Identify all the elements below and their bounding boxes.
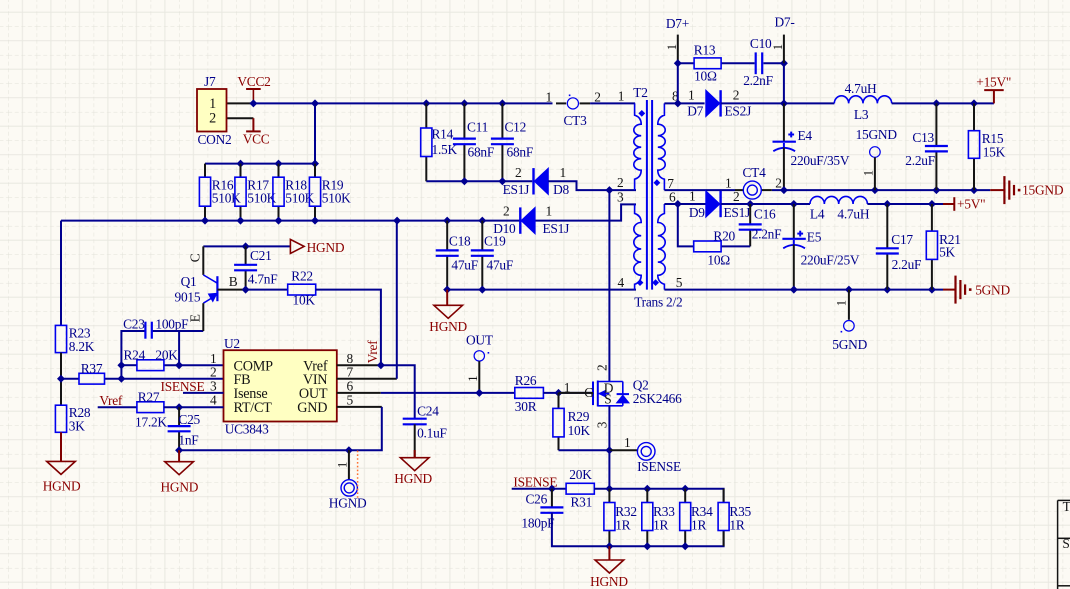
junction C26 top bbox=[548, 485, 556, 493]
capacitor C19 bbox=[471, 249, 494, 251]
resistor R15 bbox=[968, 131, 979, 159]
svg-text:R31: R31 bbox=[571, 494, 593, 509]
connector J7 CON2 bbox=[197, 89, 227, 132]
junction D7/E4 bbox=[780, 99, 788, 107]
wire VIN riser bbox=[396, 221, 398, 379]
T2 polarity dot w4 bbox=[652, 279, 659, 286]
svg-text:Vref: Vref bbox=[99, 393, 123, 408]
junction C19 top bbox=[478, 217, 486, 225]
svg-text:5GND: 5GND bbox=[832, 337, 867, 352]
ground HGND (C24) bbox=[414, 450, 416, 458]
svg-text:E5: E5 bbox=[807, 230, 822, 245]
U2 pin7 lead bbox=[337, 378, 397, 380]
svg-text:4.7nF: 4.7nF bbox=[248, 271, 278, 286]
svg-text:220uF/25V: 220uF/25V bbox=[801, 253, 860, 268]
wire R27 to pin4 bbox=[164, 406, 224, 408]
snubber riser right bbox=[783, 63, 785, 103]
junction R32 top bbox=[605, 485, 613, 493]
resistor R28 bbox=[55, 405, 66, 432]
svg-text:2: 2 bbox=[617, 175, 623, 190]
ground HGND (sense) bbox=[608, 546, 610, 560]
svg-text:15GND: 15GND bbox=[1022, 183, 1064, 198]
junction VCC2/J7 bbox=[249, 99, 257, 107]
junction Vref/pin8 bbox=[377, 361, 385, 369]
OUT tp tiny dot bbox=[488, 352, 490, 354]
transformer T2 core bbox=[646, 100, 648, 290]
resistor R22 bbox=[288, 284, 316, 295]
junction C23/COMP bbox=[175, 361, 183, 369]
svg-text:E: E bbox=[188, 314, 203, 322]
wire GND return bbox=[179, 407, 382, 450]
wire R29 to source node bbox=[559, 449, 610, 451]
svg-text:C16: C16 bbox=[754, 207, 776, 222]
junction pin6/R20 bbox=[674, 200, 682, 208]
diode D9 bbox=[706, 191, 720, 217]
svg-text:GND: GND bbox=[297, 400, 327, 416]
wire 15GND rail bbox=[772, 189, 990, 191]
svg-text:1: 1 bbox=[665, 44, 679, 50]
CT3 tiny dot bbox=[569, 95, 571, 97]
resistor R19 leads bbox=[314, 164, 316, 178]
svg-text:ISENSE: ISENSE bbox=[637, 459, 681, 474]
wire base to R22 bbox=[246, 289, 288, 291]
testpoint CT3 circle bbox=[567, 98, 578, 109]
junction C12 bottom bbox=[498, 177, 506, 185]
svg-text:6: 6 bbox=[347, 379, 354, 394]
junction R17 top bbox=[237, 160, 245, 168]
svg-text:180pF: 180pF bbox=[521, 515, 554, 530]
svg-text:VCC: VCC bbox=[243, 132, 270, 147]
ground HGND (C18/C19) bbox=[446, 290, 448, 306]
junction R18 top bbox=[275, 160, 283, 168]
svg-text:C21: C21 bbox=[250, 248, 272, 263]
transistor Q2 2SK2466 bbox=[592, 382, 594, 406]
transformer T2 winding 3-4 bbox=[634, 204, 641, 289]
capacitor C21 bbox=[234, 264, 257, 266]
junction R34 bottom bbox=[681, 542, 689, 550]
capacitor E4 bbox=[773, 141, 796, 143]
capacitor C26 leads bbox=[551, 489, 553, 508]
junction rail/C11 bbox=[460, 99, 468, 107]
junction E5 top bbox=[790, 200, 798, 208]
capacitor C17 leads bbox=[886, 204, 888, 248]
svg-text:2: 2 bbox=[733, 88, 739, 103]
svg-text:5: 5 bbox=[676, 275, 683, 290]
svg-text:R13: R13 bbox=[694, 42, 716, 57]
junction C11 bottom bbox=[460, 177, 468, 185]
junction R19 bottom bbox=[311, 217, 319, 225]
svg-text:R14: R14 bbox=[432, 127, 454, 142]
svg-text:CT3: CT3 bbox=[564, 113, 588, 128]
svg-text:1R: 1R bbox=[653, 518, 668, 533]
junction R21 bottom bbox=[928, 286, 936, 294]
resistor R32 leads bbox=[608, 489, 610, 503]
junction R23/R37 bbox=[57, 375, 65, 383]
svg-text:2: 2 bbox=[595, 365, 610, 371]
junction OUT tp bbox=[475, 389, 483, 397]
svg-text:15GND: 15GND bbox=[856, 127, 898, 142]
junction C13 top bbox=[932, 99, 940, 107]
testpoint 5GND bbox=[844, 321, 855, 332]
transistor Q1 9015 bbox=[216, 276, 218, 301]
wire source down bbox=[608, 406, 610, 450]
svg-text:1: 1 bbox=[689, 188, 695, 203]
resistor R34 bbox=[680, 503, 691, 531]
svg-text:1nF: 1nF bbox=[178, 432, 198, 447]
junction R32 bottom bbox=[605, 542, 613, 550]
junction D8/drain bbox=[605, 186, 613, 194]
svg-text:R24: R24 bbox=[124, 348, 146, 363]
testpoint OUT bbox=[474, 351, 484, 361]
svg-text:C19: C19 bbox=[484, 234, 506, 249]
wire VCC2-startup rail bbox=[61, 204, 636, 220]
svg-text:2SK2466: 2SK2466 bbox=[633, 391, 682, 406]
svg-text:J7: J7 bbox=[204, 74, 216, 89]
wire VCC2 rail bbox=[253, 102, 552, 104]
wire snubber row bbox=[678, 62, 694, 64]
svg-text:HGND: HGND bbox=[329, 496, 367, 511]
capacitor C10 bbox=[755, 52, 757, 74]
wire R20 branch bbox=[678, 204, 694, 246]
junction R34 top bbox=[681, 485, 689, 493]
resistor R31 bbox=[566, 483, 594, 494]
svg-text:1: 1 bbox=[335, 462, 349, 468]
svg-text:5: 5 bbox=[347, 393, 354, 408]
svg-text:15K: 15K bbox=[983, 144, 1006, 159]
junction 15GND tp bbox=[871, 186, 879, 194]
svg-text:10Ω: 10Ω bbox=[694, 69, 717, 84]
junction gate/R29 bbox=[555, 389, 563, 397]
capacitor E5 lead bottom bbox=[793, 240, 795, 245]
T2 polarity dot w1 bbox=[638, 110, 645, 117]
junction D9/C16 bbox=[746, 200, 754, 208]
svg-text:5K: 5K bbox=[939, 245, 955, 260]
wire D8 to T2 pin2 bbox=[548, 181, 636, 190]
wire sense rail bbox=[594, 489, 723, 503]
svg-text:D7: D7 bbox=[687, 103, 703, 118]
power port VCC bbox=[252, 118, 254, 131]
svg-text:VCC2: VCC2 bbox=[237, 74, 270, 89]
svg-text:S: S bbox=[1062, 536, 1069, 551]
svg-text:L4: L4 bbox=[810, 207, 825, 222]
resistor R37 bbox=[79, 373, 105, 384]
svg-text:17.2K: 17.2K bbox=[135, 414, 167, 429]
svg-text:1R: 1R bbox=[691, 518, 706, 533]
svg-text:7: 7 bbox=[347, 364, 354, 379]
svg-text:1: 1 bbox=[861, 170, 875, 176]
testpoint OUT lead bbox=[478, 361, 480, 393]
wire T2 pin8 to D7 bbox=[664, 102, 704, 104]
svg-text:2: 2 bbox=[210, 364, 216, 379]
wire 5GND rail bbox=[664, 289, 943, 291]
svg-text:R26: R26 bbox=[515, 373, 537, 388]
svg-text:R35: R35 bbox=[729, 504, 751, 519]
svg-text:D9: D9 bbox=[689, 205, 705, 220]
svg-text:2: 2 bbox=[733, 189, 739, 204]
capacitor C13 leads bbox=[935, 103, 937, 145]
capacitor C24 lead bottom bbox=[414, 424, 416, 457]
wire drain riser bbox=[608, 190, 610, 381]
svg-text:3: 3 bbox=[210, 379, 217, 394]
svg-text:E4: E4 bbox=[798, 128, 813, 143]
svg-text:1: 1 bbox=[618, 88, 624, 103]
svg-text:2: 2 bbox=[503, 203, 509, 218]
junction source/ISENSE bbox=[605, 446, 613, 454]
capacitor C25 bbox=[168, 425, 191, 427]
svg-text:8.2K: 8.2K bbox=[69, 339, 95, 354]
5GND tp tiny dot bbox=[841, 331, 843, 333]
svg-text:220uF/35V: 220uF/35V bbox=[791, 153, 850, 168]
transformer T2 winding 6-5 bbox=[658, 204, 665, 290]
svg-text:1: 1 bbox=[771, 44, 785, 50]
ground 5GND bbox=[943, 289, 956, 291]
junction R15 bottom bbox=[970, 186, 978, 194]
svg-text:2.2uF: 2.2uF bbox=[905, 153, 935, 168]
capacitor C18 leads bbox=[446, 221, 448, 251]
svg-text:1: 1 bbox=[725, 175, 731, 190]
testpin D7- bbox=[783, 35, 785, 64]
junction C18 bottom bbox=[443, 286, 451, 294]
svg-text:4.7uH: 4.7uH bbox=[837, 207, 869, 222]
wire L4 to +5V bbox=[867, 203, 943, 205]
snubber riser left bbox=[677, 63, 679, 103]
U2 pin6 lead (OUT) bbox=[337, 392, 381, 394]
resistor R18 bbox=[273, 177, 284, 206]
inductor L4 bbox=[810, 196, 867, 204]
svg-text:ES1J: ES1J bbox=[724, 205, 751, 220]
junction R17 bottom bbox=[237, 217, 245, 225]
svg-text:4.7uH: 4.7uH bbox=[845, 81, 877, 96]
svg-text:R29: R29 bbox=[568, 409, 590, 424]
resistor R16 leads bbox=[204, 164, 206, 178]
capacitor E4 lead bottom bbox=[783, 143, 785, 148]
junction Q1 base/C21/R22 bbox=[242, 286, 250, 294]
junction rail/R14 bbox=[422, 99, 430, 107]
wire FB row bbox=[121, 378, 223, 380]
svg-text:9015: 9015 bbox=[175, 289, 201, 304]
U2 pin3 lead (Isense) bbox=[183, 392, 224, 394]
wire D9 cathode to L4 bbox=[721, 203, 810, 205]
svg-text:4: 4 bbox=[617, 275, 624, 290]
svg-text:R33: R33 bbox=[653, 504, 675, 519]
svg-text:1R: 1R bbox=[615, 518, 630, 533]
resistor R29 bbox=[553, 408, 564, 437]
wire R22 to Vref bbox=[316, 290, 381, 366]
junction R24 left bbox=[117, 361, 125, 369]
capacitor E5 plus bbox=[797, 233, 803, 235]
capacitor C12 leads bbox=[501, 103, 503, 138]
svg-text:B: B bbox=[229, 274, 238, 289]
svg-text:ES1J: ES1J bbox=[503, 182, 530, 197]
svg-text:2: 2 bbox=[775, 175, 781, 190]
svg-text:T: T bbox=[1063, 499, 1070, 514]
svg-text:30R: 30R bbox=[515, 399, 537, 414]
wire CT3 to T2 pin1 bbox=[590, 102, 635, 104]
testpoint 5GND lead bbox=[848, 290, 850, 320]
wire T2 pin6 to D9 bbox=[664, 203, 705, 205]
svg-text:1R: 1R bbox=[729, 518, 744, 533]
svg-text:1: 1 bbox=[209, 96, 216, 112]
resistor R35 leads bbox=[723, 489, 725, 503]
ground HGND arrow (Q1 collector) bbox=[290, 239, 304, 253]
junction C17 bottom bbox=[883, 286, 891, 294]
resistor R24 bbox=[137, 360, 164, 371]
svg-text:C11: C11 bbox=[467, 119, 488, 134]
svg-text:2.2uF: 2.2uF bbox=[892, 257, 922, 272]
svg-text:C24: C24 bbox=[417, 403, 439, 418]
svg-text:C26: C26 bbox=[526, 491, 548, 506]
diode D7 bbox=[706, 90, 720, 116]
svg-text:R20: R20 bbox=[713, 228, 735, 243]
resistor R17 leads bbox=[240, 164, 242, 178]
junction C19 bottom bbox=[478, 286, 486, 294]
svg-text:HGND: HGND bbox=[161, 480, 199, 495]
U2 pin8 lead bbox=[337, 364, 381, 366]
svg-text:L3: L3 bbox=[854, 107, 869, 122]
svg-text:1: 1 bbox=[688, 88, 694, 103]
wire D7 cathode to L3 bbox=[721, 102, 835, 104]
svg-text:510K: 510K bbox=[322, 191, 351, 206]
junction C25 bottom bbox=[175, 446, 183, 454]
transformer T2 winding 8-7 bbox=[658, 103, 665, 190]
svg-text:D7+: D7+ bbox=[666, 16, 689, 31]
junction R33 bottom bbox=[643, 542, 651, 550]
capacitor C21 leads bbox=[245, 246, 247, 264]
svg-text:CT4: CT4 bbox=[743, 165, 767, 180]
capacitor C16 leads bbox=[749, 204, 751, 224]
wire gate lead bbox=[559, 392, 594, 394]
wire T2 pin7 to CT4 bbox=[664, 189, 735, 191]
wire L3 to +15V bbox=[892, 102, 994, 104]
capacitor C11 leads bbox=[463, 103, 465, 138]
junction HGND tp bbox=[345, 446, 353, 454]
wire HGND rail to T2 pin4 bbox=[447, 289, 636, 291]
svg-text:1: 1 bbox=[834, 300, 848, 306]
wire C26 to bottom rail bbox=[552, 513, 724, 546]
svg-text:+5V": +5V" bbox=[957, 196, 985, 211]
svg-text:3K: 3K bbox=[69, 419, 85, 434]
svg-text:RT/CT: RT/CT bbox=[234, 400, 273, 416]
svg-text:47uF: 47uF bbox=[487, 257, 514, 272]
wire D8 anode rail bbox=[426, 180, 532, 182]
testpoint CT4 bbox=[743, 181, 761, 199]
transformer T2 winding 1-2 bbox=[634, 103, 641, 190]
testpoint ISENSE lead bbox=[609, 449, 637, 451]
wire R19 drop bbox=[314, 103, 316, 163]
svg-text:HGND: HGND bbox=[43, 479, 81, 494]
capacitor E5 lead top bbox=[793, 204, 795, 238]
svg-text:Trans 2/2: Trans 2/2 bbox=[634, 295, 682, 310]
svg-text:HGND: HGND bbox=[590, 574, 628, 589]
svg-text:2: 2 bbox=[515, 165, 521, 180]
testpoint ISENSE bbox=[637, 443, 655, 461]
resistor R34 leads bbox=[684, 489, 686, 503]
svg-text:C23: C23 bbox=[123, 317, 145, 332]
resistor R23 bbox=[55, 325, 66, 352]
resistor R32 bbox=[604, 503, 615, 531]
wire R16-R19 top rail bbox=[205, 163, 315, 165]
svg-text:510K: 510K bbox=[285, 191, 314, 206]
svg-text:1: 1 bbox=[560, 165, 566, 180]
testpin D7+ bbox=[677, 35, 679, 64]
junction R18 bottom bbox=[275, 217, 283, 225]
svg-text:20K: 20K bbox=[569, 467, 592, 482]
svg-text:5GND: 5GND bbox=[975, 283, 1010, 298]
svg-text:CON2: CON2 bbox=[198, 132, 232, 147]
svg-text:68nF: 68nF bbox=[507, 144, 534, 159]
wire Q1 collector row bbox=[203, 245, 290, 247]
junction R33 top bbox=[643, 485, 651, 493]
testpoint HGND lead bbox=[348, 450, 350, 479]
capacitor C26 bbox=[540, 506, 563, 508]
svg-text:6: 6 bbox=[669, 190, 676, 205]
svg-text:3: 3 bbox=[617, 190, 624, 205]
svg-text:0.1uF: 0.1uF bbox=[417, 426, 447, 441]
svg-text:Q1: Q1 bbox=[181, 274, 197, 289]
resistor R27 bbox=[137, 402, 164, 413]
resistor R33 bbox=[642, 503, 653, 531]
wire R23 to R28 bbox=[60, 353, 62, 406]
capacitor E4 plus bbox=[788, 134, 794, 136]
wire source to sense rail bbox=[608, 450, 610, 489]
capacitor E5 bbox=[782, 238, 805, 240]
svg-text:G: G bbox=[584, 385, 594, 400]
svg-text:R27: R27 bbox=[138, 390, 160, 405]
svg-text:ES1J: ES1J bbox=[543, 221, 570, 236]
svg-text:2.2nF: 2.2nF bbox=[743, 73, 773, 88]
svg-text:20K: 20K bbox=[155, 348, 178, 363]
testpoint 15GND bbox=[870, 147, 881, 158]
power port +15V" bbox=[993, 90, 995, 103]
capacitor C17 bbox=[876, 247, 899, 249]
svg-text:1: 1 bbox=[546, 203, 552, 218]
testpoint HGND bbox=[341, 480, 357, 496]
svg-text:D7-: D7- bbox=[775, 15, 795, 30]
capacitor C13 bbox=[925, 145, 948, 147]
svg-text:R22: R22 bbox=[291, 269, 313, 284]
ground 15GND bbox=[990, 189, 1004, 191]
svg-text:U2: U2 bbox=[224, 336, 240, 351]
capacitor C23 bbox=[144, 322, 146, 339]
svg-text:100pF: 100pF bbox=[155, 317, 188, 332]
junction C17 top bbox=[883, 200, 891, 208]
inductor L3 bbox=[834, 96, 891, 104]
junction C21 top bbox=[242, 242, 250, 250]
svg-text:1: 1 bbox=[624, 435, 630, 450]
svg-text:47uF: 47uF bbox=[451, 257, 478, 272]
transistor Q1 collector lead bbox=[202, 246, 204, 275]
capacitor C12 bbox=[491, 138, 514, 140]
capacitor C11 bbox=[453, 138, 476, 140]
svg-text:1: 1 bbox=[545, 90, 551, 105]
capacitor C16 bbox=[739, 223, 762, 225]
wire COMP row bbox=[121, 364, 136, 366]
resistor R35 bbox=[718, 503, 729, 531]
wire R26 to gate bbox=[543, 392, 592, 394]
svg-text:68nF: 68nF bbox=[468, 144, 495, 159]
resistor R14 bbox=[421, 128, 432, 157]
junction R21 top bbox=[928, 200, 936, 208]
capacitor C23 wiring bbox=[121, 331, 145, 365]
svg-text:3: 3 bbox=[595, 421, 610, 428]
resistor R20 bbox=[694, 241, 721, 252]
junction R16 bottom bbox=[201, 217, 209, 225]
orange guide line bbox=[357, 451, 359, 499]
capacitor C25 leads bbox=[178, 407, 180, 426]
svg-text:10Ω: 10Ω bbox=[707, 253, 730, 268]
resistor R26 bbox=[515, 388, 544, 399]
capacitor E4 lead top bbox=[783, 103, 785, 141]
